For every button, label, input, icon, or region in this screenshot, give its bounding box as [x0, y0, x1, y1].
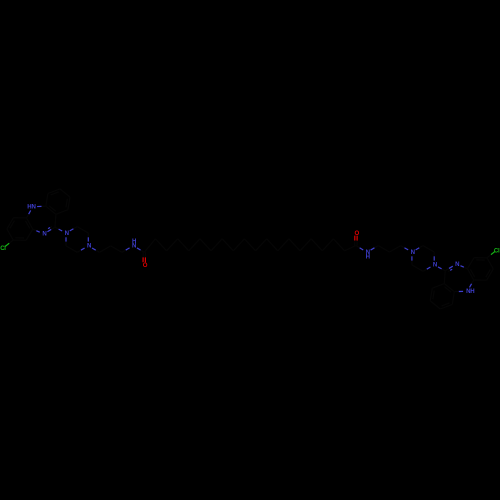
svg-text:N: N [411, 249, 415, 256]
svg-text:N: N [65, 230, 69, 237]
svg-text:N: N [87, 243, 91, 250]
svg-text:Cl: Cl [0, 245, 6, 252]
svg-text:N: N [433, 262, 437, 269]
svg-text:Cl: Cl [494, 247, 500, 254]
svg-text:H: H [366, 254, 370, 261]
svg-text:H: H [470, 288, 474, 295]
svg-text:H: H [132, 238, 136, 245]
svg-text:N: N [455, 261, 459, 268]
svg-text:N: N [42, 231, 46, 238]
svg-text:O: O [143, 262, 148, 269]
svg-text:N: N [31, 204, 35, 211]
svg-text:O: O [355, 230, 360, 237]
